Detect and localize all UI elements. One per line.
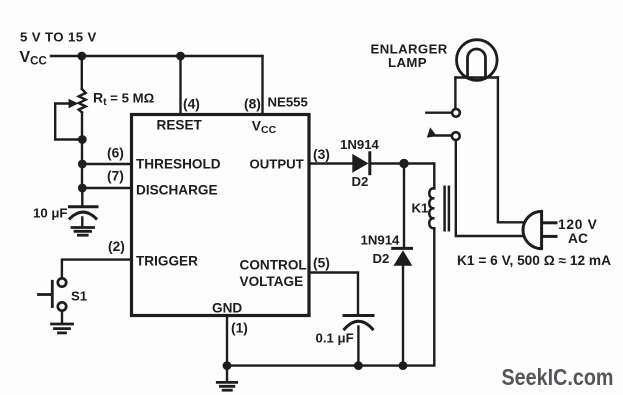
relay contact upper: terminal circle [452,109,460,117]
wire Rt bottom to threshold node [81,112,83,188]
switch S1 actuator bar [51,281,54,306]
svg-text:VCC: VCC [252,119,277,137]
svg-text:10 μF: 10 μF [33,206,67,221]
svg-text:(3): (3) [313,147,330,162]
wire S1 to ground [61,311,63,323]
lamp envelope top edge [455,76,498,78]
relay core bar 2 [448,187,451,230]
svg-text:Rt = 5 MΩ: Rt = 5 MΩ [93,90,155,109]
junction VCC / Rt branch [77,52,86,61]
svg-text:K1 = 6 V, 500 Ω ≈ 12 mA: K1 = 6 V, 500 Ω ≈ 12 mA [457,253,611,268]
wire coil bottom to ground rail [227,228,434,365]
svg-text:CONTROL: CONTROL [240,258,307,273]
relay armature lead [436,134,451,136]
wire C1 to ground [81,218,83,227]
AC plug body [523,211,542,248]
wire pin 5 CONTROL VOLTAGE [309,273,358,314]
AC plug prong lower [543,235,556,238]
svg-text:1N914: 1N914 [361,233,401,248]
relay coil K1 [429,188,434,228]
lamp filament loop [468,49,486,78]
wire pin 7 DISCHARGE [82,187,132,189]
svg-text:TRIGGER: TRIGGER [136,254,198,269]
svg-text:LAMP: LAMP [388,55,427,70]
junction VCC / pin 4 branch [176,52,185,61]
relay armature arrow [427,127,437,137]
junction ground rail / clamp diode [399,361,408,370]
wire output node to relay coil [433,164,435,189]
wire lamp left to upper contact [454,78,456,108]
svg-text:DISCHARGE: DISCHARGE [136,182,218,197]
junction pin 7 [78,184,87,193]
capacitor C2 0.1uF curved plate [345,321,373,329]
wire lower contact down to plug [456,140,523,236]
svg-text:NE555: NE555 [268,95,308,110]
relay contact upper: fixed lead [426,111,451,113]
svg-text:120 V: 120 V [558,217,598,232]
svg-text:D2: D2 [373,251,390,266]
junction ground rail / C2 [354,361,363,370]
svg-text:AC: AC [568,231,588,246]
enlarger lamp bulb [457,40,498,81]
wire C2 to ground rail [357,327,359,366]
resistor Rt (potentiometer element) [79,89,86,112]
svg-text:(8): (8) [244,97,261,112]
svg-text:(2): (2) [108,239,125,254]
wire lamp right down to plug [498,78,524,223]
ground under C1 [72,228,94,236]
svg-text:(1): (1) [231,320,248,335]
svg-text:(4): (4) [183,97,200,112]
svg-text:(7): (7) [107,168,124,183]
relay contact lower: terminal circle [452,132,460,140]
wire diode to output node [371,162,434,164]
svg-text:RESET: RESET [157,117,203,132]
capacitor C1 10uF top plate [70,205,98,208]
ground at pin 1 [217,382,236,390]
ground under S1 [52,324,73,333]
svg-text:0.1 μF: 0.1 μF [316,331,354,346]
junction output node [399,159,408,168]
wire pin7 node to capacitor C1 [81,188,83,205]
wire pin 1 GND drop [226,316,228,366]
svg-text:GND: GND [212,300,242,315]
svg-text:(6): (6) [107,145,124,160]
wire pin1 node to ground symbol [226,366,228,381]
relay core bar 1 [443,187,446,230]
capacitor C1 10uF curved plate [70,212,96,218]
wire pin 4 drop [179,56,181,114]
svg-text:K1: K1 [412,201,429,216]
diode D2 series: anode triangle [352,154,368,173]
diode D2 series: cathode bar [368,153,371,174]
junction wiper / Rt bottom [78,135,87,144]
wire clamp diode to ground rail [402,266,404,366]
svg-text:5 V TO 15 V: 5 V TO 15 V [20,30,97,45]
svg-text:OUTPUT: OUTPUT [250,157,304,172]
capacitor C2 0.1uF top plate [344,314,373,317]
svg-text:1N914: 1N914 [340,137,380,152]
wire pin 2 TRIGGER [62,260,132,279]
wire pin 8 drop [261,56,263,114]
wire pin 6 THRESHOLD [82,163,132,165]
wire output node down to clamp diode [403,164,405,249]
switch S1 top contact [58,278,66,286]
svg-text:THRESHOLD: THRESHOLD [136,157,221,172]
potentiometer wiper arrow [69,99,79,108]
junction pin 6 [78,160,87,169]
svg-text:S1: S1 [71,289,87,304]
wire VCC rail [51,55,263,57]
switch S1 bottom contact [58,302,66,310]
svg-text:(5): (5) [313,256,330,271]
svg-text:SeekIC.com: SeekIC.com [502,364,614,390]
switch S1 actuator stub [39,293,52,296]
svg-text:VOLTAGE: VOLTAGE [240,274,304,289]
wiper feedback wire [55,104,78,140]
svg-text:VCC: VCC [20,49,47,68]
wire VCC to Rt top [81,56,83,89]
AC plug prong upper [543,221,556,224]
diode D2 clamp: cathode bar [393,247,412,250]
op IC U1 NE555 body [132,115,310,316]
svg-text:D2: D2 [352,174,369,189]
wire pin 3 OUTPUT [309,162,352,164]
junction ground rail / pin1 [223,361,232,370]
diode D2 clamp: triangle (pointing up) [394,250,413,266]
